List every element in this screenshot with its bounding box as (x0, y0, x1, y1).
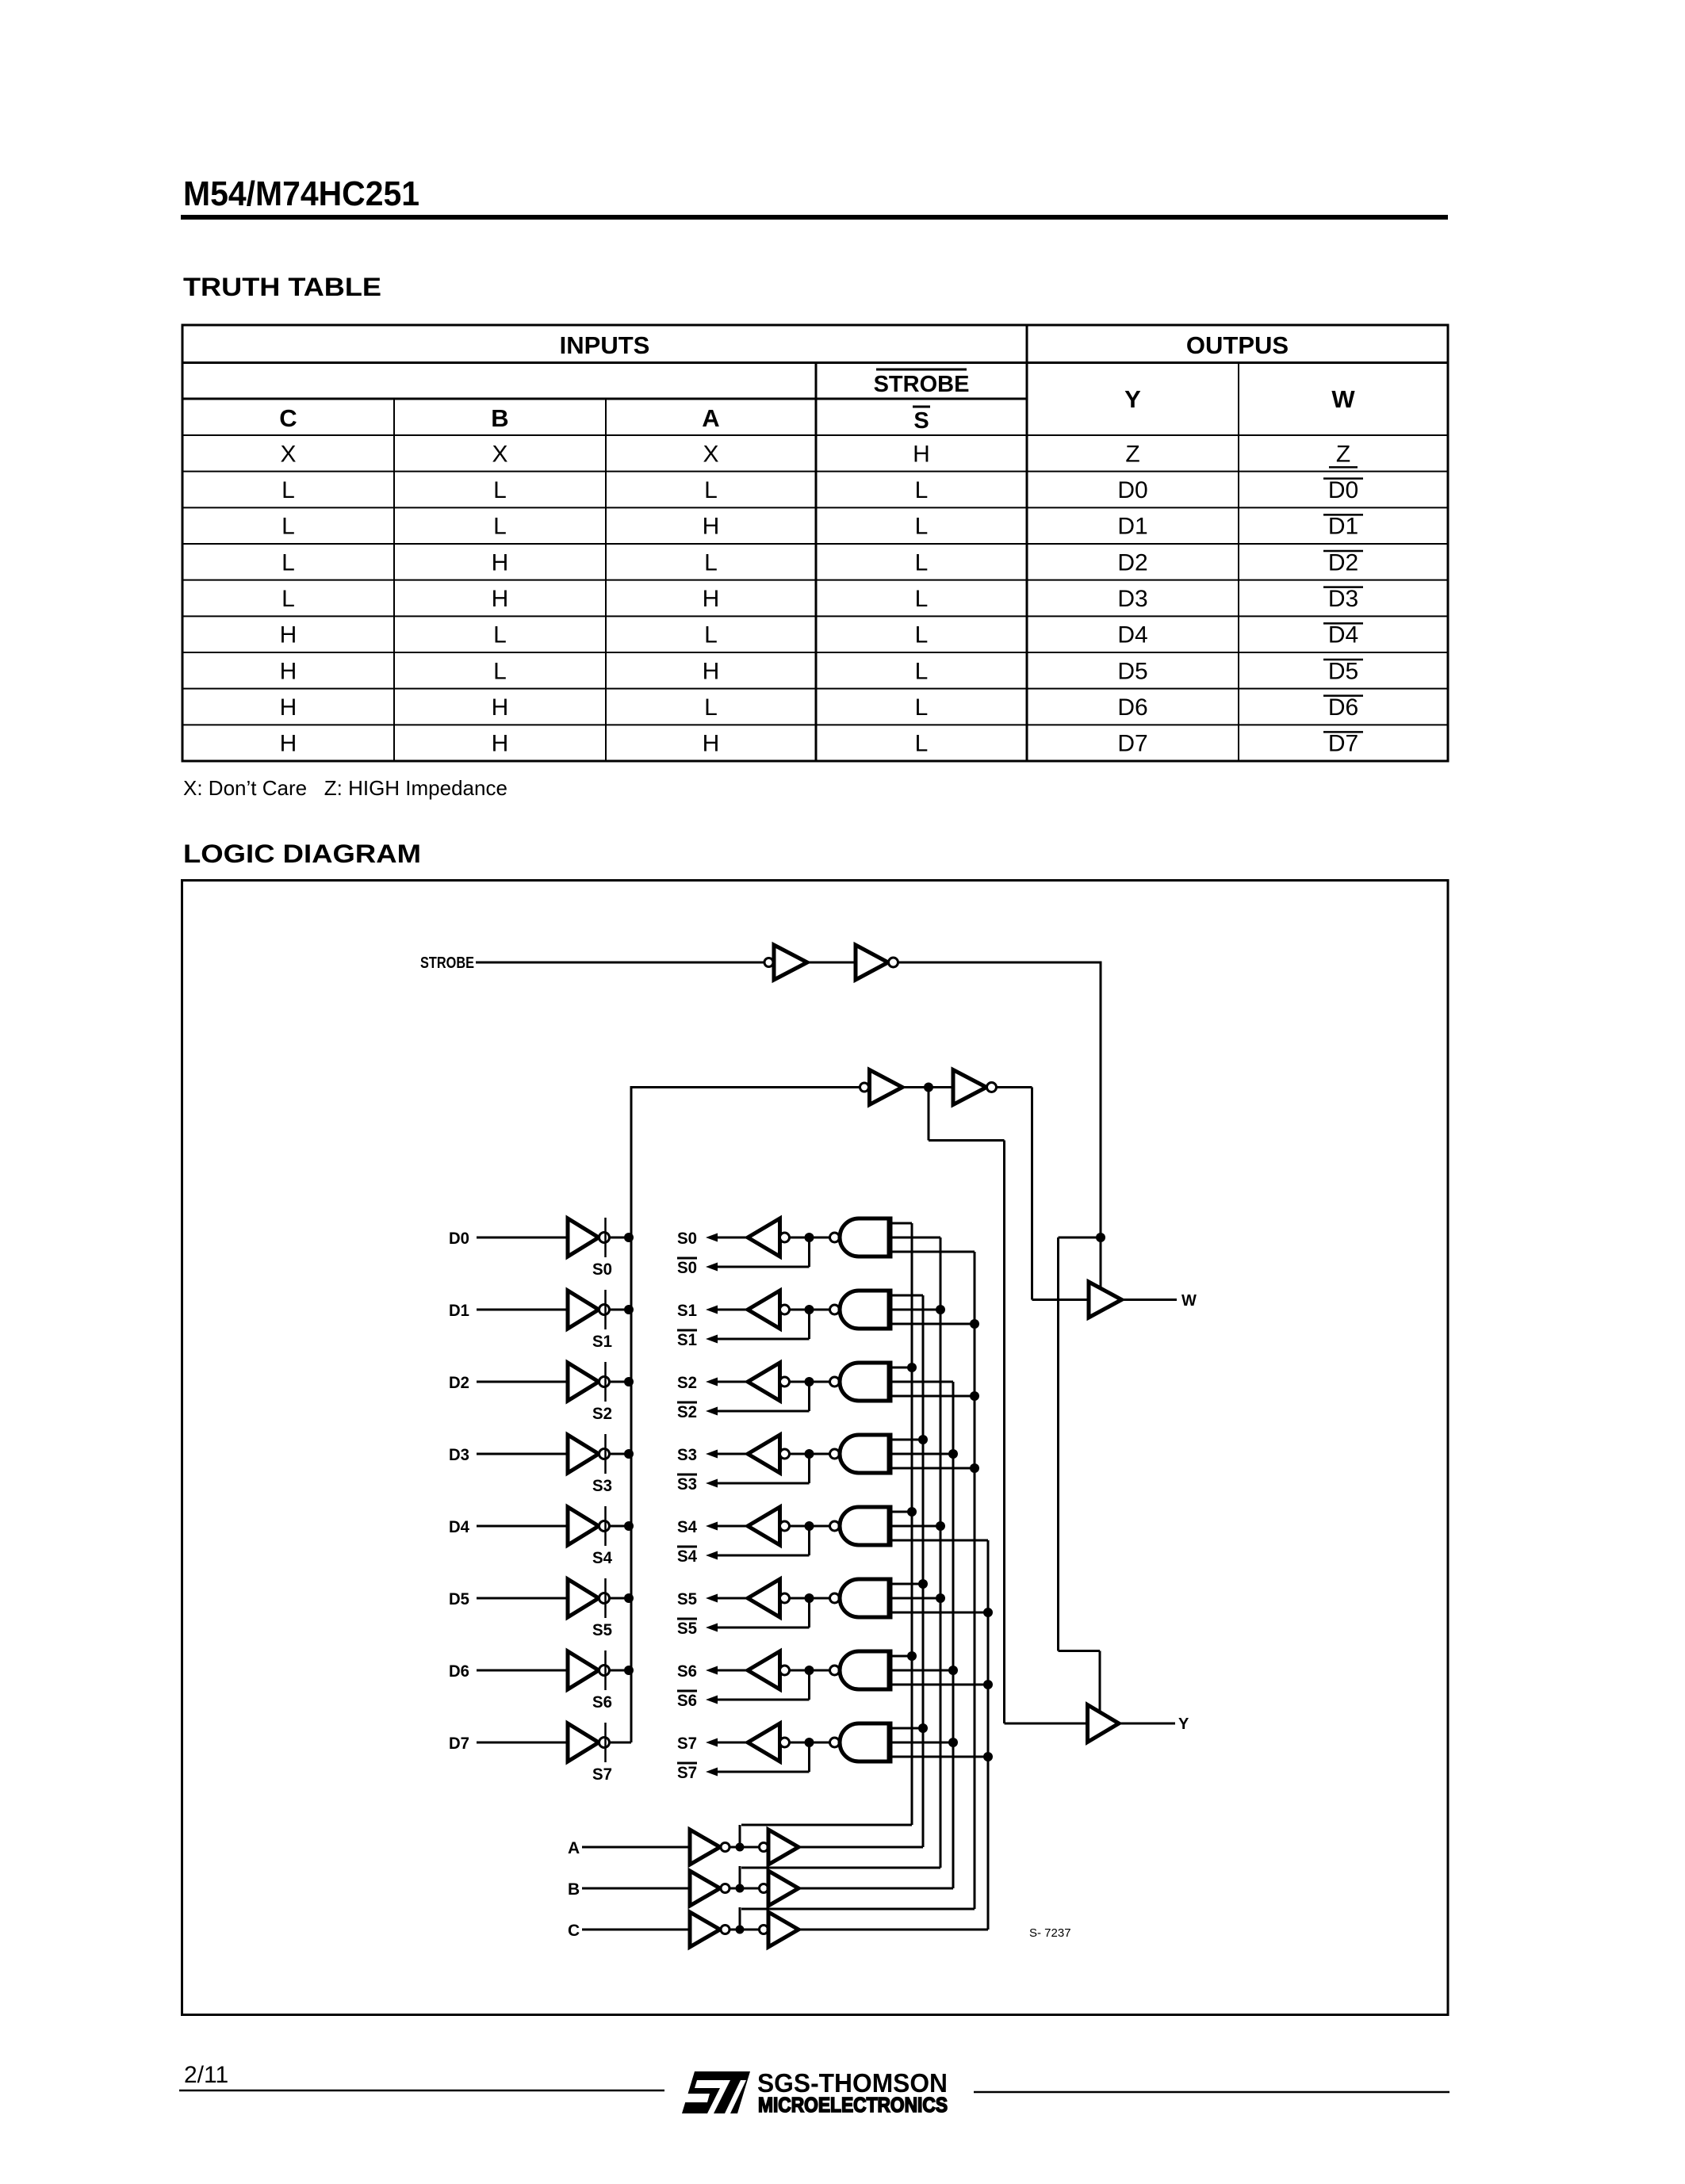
svg-text:X: Don’t Care Z: HIGH Impeda: X: Don’t Care Z: HIGH Impedance (183, 776, 507, 800)
truth table column line B/A (605, 399, 607, 761)
svg-text:D2: D2 (1117, 549, 1147, 576)
SGS-THOMSON logo mark (681, 2071, 750, 2113)
svg-text:D1: D1 (449, 1302, 469, 1320)
svg-text:L: L (915, 658, 929, 684)
node S0bar junction (805, 1233, 814, 1242)
wire NAND G3 output (790, 1453, 830, 1455)
select tick S3 (604, 1434, 607, 1474)
svg-text:H: H (703, 658, 720, 684)
svg-text:D6: D6 (1328, 694, 1358, 721)
inverter U6A data (568, 1651, 599, 1689)
svg-text:D5: D5 (1117, 658, 1147, 684)
inverter C2 input bubble (760, 1926, 768, 1934)
svg-text:L: L (493, 622, 507, 648)
wire G2 select input mid (892, 1381, 953, 1383)
wire line A-bar select vertical (911, 1223, 913, 1825)
nand gate G3 (840, 1435, 890, 1473)
wire S5bar vertical (808, 1598, 810, 1627)
wire S1 from inverter U1B (715, 1309, 748, 1311)
inverter B2 input bubble (760, 1884, 768, 1893)
node S6bar junction (805, 1666, 814, 1675)
inverter U3B input bubble (780, 1449, 790, 1459)
svg-text:S7: S7 (677, 1735, 697, 1753)
svg-text:Z: Z (1125, 441, 1139, 467)
node select junction (983, 1608, 993, 1617)
svg-text:H: H (492, 586, 509, 612)
inverter U5B input bubble (780, 1593, 790, 1603)
svg-text:S3: S3 (592, 1477, 612, 1495)
inverter U7A data (568, 1723, 599, 1761)
node select junction (907, 1507, 917, 1517)
wire G4 select input bottom (892, 1540, 988, 1542)
nand gate G6 (840, 1651, 890, 1689)
title rule (181, 215, 1448, 220)
inverter U2B input bubble (780, 1377, 790, 1387)
nand gate G7 output bubble (830, 1738, 840, 1747)
nand gate G5 output bubble (830, 1593, 840, 1603)
wire bus top horizontal to N2A (631, 1086, 860, 1088)
inverter U5A data (568, 1579, 599, 1617)
inverter A1 (690, 1830, 720, 1865)
arrow S1bar (706, 1335, 718, 1344)
svg-text:L: L (281, 549, 295, 576)
svg-text:S0: S0 (677, 1259, 697, 1277)
wire NAND G6 output (790, 1670, 830, 1672)
svg-text:B: B (568, 1880, 580, 1899)
wire Y input vertical (1003, 1141, 1005, 1724)
svg-text:S0: S0 (592, 1260, 612, 1279)
inverter N2A input bubble (860, 1083, 869, 1092)
inverter A1 output bubble (721, 1843, 730, 1852)
arrow S0 (706, 1234, 718, 1242)
truth table row line 3 (182, 543, 1448, 545)
node S7bar junction (805, 1738, 814, 1747)
inverter A2 (768, 1830, 798, 1865)
wire W output (1122, 1299, 1178, 1301)
node select junction (970, 1463, 979, 1473)
wire G6 select input top (892, 1655, 912, 1658)
svg-text:D7: D7 (1328, 731, 1358, 757)
wire D7 to inverter (477, 1742, 568, 1744)
wire line A select vertical (922, 1295, 925, 1847)
truth table subheader row line (182, 434, 1448, 436)
inverter N1B output bubble (889, 958, 898, 967)
truth table column line INPUTS/OUTPUS (1026, 325, 1028, 761)
svg-text:L: L (281, 514, 295, 540)
wire line B select vertical (952, 1382, 955, 1888)
inverter A2 input bubble (760, 1843, 768, 1852)
truth table row line 6 (182, 652, 1448, 653)
nand gate G4 output bubble (830, 1521, 840, 1531)
node select junction (970, 1319, 979, 1329)
wire Y tap vertical (928, 1088, 930, 1141)
svg-text:L: L (281, 586, 295, 612)
truth table row line 1 (182, 471, 1448, 472)
svg-text:D7: D7 (1117, 731, 1147, 757)
node select junction (948, 1666, 958, 1675)
node enable branch junction (1096, 1233, 1105, 1242)
wire G6 select input mid (892, 1670, 953, 1672)
wire B dot to buffer (730, 1888, 759, 1890)
inverter N2A (870, 1070, 903, 1105)
wire B true to vertical (798, 1888, 953, 1890)
wire A dot to buffer (730, 1846, 759, 1849)
svg-text:L: L (704, 694, 718, 721)
arrow S6 (706, 1666, 718, 1675)
wire S2bar horizontal (717, 1410, 810, 1413)
node select junction (918, 1723, 928, 1733)
nand gate G6 output bubble (830, 1666, 840, 1675)
inverter U1A output bubble (599, 1305, 610, 1315)
wire D4 to inverter (477, 1525, 568, 1528)
wire S6 from inverter U6B (715, 1670, 748, 1672)
svg-text:L: L (915, 586, 929, 612)
node bus junction D2 (624, 1377, 634, 1387)
svg-text:S- 7237: S- 7237 (1029, 1926, 1071, 1940)
wire enable branch to left (1059, 1237, 1101, 1239)
wire N1A to N1B (807, 962, 856, 964)
inverter U7A output bubble (599, 1738, 610, 1748)
svg-text:L: L (915, 694, 929, 721)
wire S1bar horizontal (717, 1338, 810, 1341)
inverter U1A data (568, 1291, 599, 1329)
wire enable to W buffer (1100, 1237, 1102, 1290)
svg-text:S5: S5 (677, 1620, 697, 1638)
truth table header row line (182, 361, 1448, 364)
inverter B1 (690, 1871, 720, 1906)
wire G0 select input bottom (892, 1251, 975, 1253)
svg-text:D7: D7 (449, 1735, 469, 1753)
wire W input horizontal (1032, 1299, 1090, 1301)
wire U7A output to bus (610, 1742, 632, 1744)
arrow S7 (706, 1738, 718, 1747)
select tick S0 (604, 1218, 607, 1257)
wire N1B output to right (898, 962, 1102, 964)
svg-text:S5: S5 (592, 1621, 612, 1639)
wire A-bar up (739, 1825, 741, 1847)
svg-text:D6: D6 (1117, 694, 1147, 721)
svg-text:S: S (913, 408, 929, 434)
inverter U0A output bubble (599, 1233, 610, 1243)
inverter U0B input bubble (780, 1233, 790, 1242)
wire Y tap horizontal (929, 1139, 1005, 1142)
nand gate G1 (840, 1291, 890, 1329)
wire W input vertical (1031, 1088, 1033, 1300)
svg-text:S4: S4 (677, 1518, 697, 1536)
select tick S4 (604, 1506, 607, 1546)
wire G1 select input bottom (892, 1323, 975, 1325)
svg-text:S5: S5 (677, 1590, 697, 1608)
wire NAND G0 output (790, 1237, 830, 1239)
inverter C2 (768, 1912, 798, 1947)
wire G4 select input mid (892, 1525, 940, 1528)
arrow S2bar (706, 1407, 718, 1416)
nand gate G7 (840, 1723, 890, 1761)
nand gate G5 (840, 1579, 890, 1617)
inverter C1 (690, 1912, 720, 1947)
wire Y input horizontal (1005, 1723, 1088, 1725)
svg-text:L: L (281, 477, 295, 503)
inverter N1A input bubble (764, 958, 773, 967)
truth table column line strobe (815, 363, 818, 762)
wire A input (582, 1846, 690, 1849)
inverter U5B (748, 1579, 780, 1617)
arrow S5bar (706, 1624, 718, 1632)
inverter U6A output bubble (599, 1666, 610, 1676)
inverter U0A data (568, 1218, 599, 1256)
wire G6 select input bottom (892, 1684, 988, 1686)
arrow S3 (706, 1450, 718, 1459)
svg-text:H: H (703, 514, 720, 540)
arrow S5 (706, 1594, 718, 1603)
wire G0 select input top (892, 1222, 912, 1225)
node A-bar junction (736, 1843, 745, 1852)
svg-text:B: B (491, 404, 508, 432)
truth table outer border (182, 325, 1448, 761)
node select junction (936, 1593, 945, 1603)
svg-text:H: H (492, 549, 509, 576)
svg-text:H: H (703, 586, 720, 612)
wire S6bar vertical (808, 1670, 810, 1700)
truth table row line 4 (182, 579, 1448, 581)
node select junction (948, 1738, 958, 1747)
select tick S2 (604, 1362, 607, 1402)
svg-text:STROBE: STROBE (874, 372, 970, 397)
svg-text:A: A (702, 404, 719, 432)
inverter N1B (856, 945, 888, 980)
truth table column line C/B (393, 399, 395, 761)
truth table row line 8 (182, 724, 1448, 725)
node S2bar junction (805, 1377, 814, 1387)
svg-text:L: L (493, 658, 507, 684)
wire U4A output to bus (610, 1525, 632, 1528)
svg-text:D2: D2 (1328, 549, 1358, 576)
svg-text:D0: D0 (1328, 477, 1358, 503)
select tick S1 (604, 1290, 607, 1329)
wire S0bar vertical (808, 1237, 810, 1267)
inverter B1 output bubble (721, 1884, 730, 1893)
svg-text:D6: D6 (449, 1662, 469, 1681)
wire C true to vertical (798, 1929, 988, 1931)
wire G3 select input top (892, 1439, 923, 1441)
wire C-bar up (739, 1907, 741, 1930)
svg-text:TRUTH TABLE: TRUTH TABLE (183, 273, 381, 301)
arrow S3bar (706, 1479, 718, 1488)
node bus junction D0 (624, 1233, 634, 1242)
wire N2B output (997, 1086, 1032, 1088)
svg-text:L: L (915, 477, 929, 503)
node select junction (970, 1391, 979, 1401)
svg-text:S6: S6 (592, 1693, 612, 1712)
logic diagram frame (182, 881, 1449, 2015)
wire NAND G2 output (790, 1381, 830, 1383)
inverter U4B (748, 1507, 780, 1545)
inverter U6B (748, 1651, 780, 1689)
wire enable vertical down (1100, 962, 1102, 1238)
svg-text:Y: Y (1178, 1715, 1189, 1733)
wire D1 to inverter (477, 1309, 568, 1311)
node select junction (936, 1521, 945, 1531)
wire S7bar vertical (808, 1742, 810, 1772)
svg-text:D2: D2 (449, 1374, 469, 1392)
select tick S5 (604, 1578, 607, 1618)
svg-text:S6: S6 (677, 1662, 697, 1681)
wire NAND G1 output (790, 1309, 830, 1311)
svg-text:S3: S3 (677, 1446, 697, 1464)
wire G5 select input bottom (892, 1612, 988, 1614)
wire U1A output to bus (610, 1309, 632, 1311)
svg-text:S3: S3 (677, 1475, 697, 1494)
inverter U7B (748, 1723, 780, 1761)
svg-text:S7: S7 (677, 1764, 697, 1782)
svg-text:L: L (915, 514, 929, 540)
arrow S4bar (706, 1551, 718, 1560)
wire mux output bus vertical (630, 1086, 633, 1742)
wire S6bar horizontal (717, 1699, 810, 1701)
wire S1bar vertical (808, 1310, 810, 1339)
svg-text:H: H (280, 731, 297, 757)
inverter U2A output bubble (599, 1377, 610, 1387)
inverter N2B (953, 1070, 986, 1105)
svg-text:D0: D0 (1117, 477, 1147, 503)
arrow S4 (706, 1522, 718, 1531)
inverter U4A data (568, 1507, 599, 1545)
wire Y output (1119, 1723, 1175, 1725)
inverter U3A data (568, 1435, 599, 1473)
svg-text:W: W (1181, 1292, 1197, 1310)
svg-text:H: H (280, 658, 297, 684)
svg-text:A: A (568, 1839, 580, 1857)
svg-text:MICROELECTRONICS: MICROELECTRONICS (758, 2093, 948, 2117)
wire S4 from inverter U4B (715, 1525, 748, 1528)
wire U3A output to bus (610, 1453, 632, 1455)
wire S4bar vertical (808, 1526, 810, 1555)
svg-text:H: H (913, 441, 930, 467)
inverter U5A output bubble (599, 1593, 610, 1604)
arrow S0bar (706, 1263, 718, 1272)
svg-text:L: L (704, 549, 718, 576)
svg-text:LOGIC DIAGRAM: LOGIC DIAGRAM (183, 840, 421, 868)
truth table column line Y/W (1238, 363, 1239, 762)
wire D6 to inverter (477, 1670, 568, 1672)
wire enable branch vertical (1057, 1237, 1059, 1651)
svg-text:S6: S6 (677, 1692, 697, 1710)
svg-text:W: W (1331, 385, 1355, 413)
wire B-bar up (739, 1866, 741, 1888)
node select junction (907, 1363, 917, 1372)
wire A-bar link (741, 1824, 912, 1826)
inverter N1A (774, 945, 807, 980)
wire B-bar link (741, 1867, 940, 1869)
svg-text:S1: S1 (592, 1333, 612, 1351)
node select junction (918, 1435, 928, 1444)
svg-text:S1: S1 (677, 1302, 697, 1320)
wire D0 to inverter (477, 1237, 568, 1239)
svg-text:S4: S4 (592, 1549, 612, 1567)
wire U2A output to bus (610, 1381, 632, 1383)
wire S2bar vertical (808, 1382, 810, 1411)
svg-text:S2: S2 (677, 1374, 697, 1392)
nand gate G4 (840, 1507, 890, 1545)
wire line C select vertical (987, 1540, 990, 1930)
wire enable to Y buffer (1099, 1651, 1101, 1714)
svg-text:S1: S1 (677, 1331, 697, 1349)
wire G2 select input bottom (892, 1395, 975, 1398)
svg-text:STROBE: STROBE (420, 954, 474, 972)
wire G7 select input mid (892, 1742, 953, 1744)
inverter U3B (748, 1435, 780, 1473)
wire S5bar horizontal (717, 1627, 810, 1629)
svg-text:C: C (279, 404, 297, 432)
svg-text:L: L (704, 622, 718, 648)
wire C dot to buffer (730, 1929, 759, 1931)
footer rule right (974, 2091, 1449, 2094)
svg-text:L: L (915, 549, 929, 576)
wire S0bar horizontal (717, 1266, 810, 1268)
node W/Y split junction (924, 1083, 933, 1092)
arrow S1 (706, 1306, 718, 1314)
svg-text:D0: D0 (449, 1230, 469, 1248)
svg-text:L: L (915, 731, 929, 757)
svg-text:H: H (492, 731, 509, 757)
wire S0 from inverter U0B (715, 1237, 748, 1239)
wire G4 select input top (892, 1511, 912, 1513)
svg-text:D5: D5 (1328, 658, 1358, 684)
wire D5 to inverter (477, 1597, 568, 1600)
wire G5 select input mid (892, 1597, 940, 1600)
inverter U7B input bubble (780, 1738, 790, 1747)
wire C-bar link (741, 1908, 975, 1911)
node bus junction D5 (624, 1593, 634, 1603)
wire G0 select input mid (892, 1237, 940, 1239)
select tick S7 (604, 1723, 607, 1762)
svg-text:S2: S2 (677, 1403, 697, 1421)
wire G3 select input mid (892, 1453, 953, 1455)
wire line B-bar select vertical (940, 1237, 942, 1868)
inverter U3A output bubble (599, 1449, 610, 1459)
inverter U1B input bubble (780, 1305, 790, 1314)
svg-text:OUTPUS: OUTPUS (1186, 331, 1289, 359)
footer rule left (179, 2090, 664, 2092)
svg-text:2/11: 2/11 (184, 2062, 228, 2088)
svg-text:D4: D4 (449, 1518, 469, 1536)
inverter U4A output bubble (599, 1521, 610, 1532)
inverter U4B input bubble (780, 1521, 790, 1531)
nand gate G0 (840, 1218, 890, 1256)
wire G2 select input top (892, 1367, 912, 1369)
svg-text:Z: Z (1336, 441, 1350, 467)
inverter U0B (748, 1218, 780, 1256)
wire A true to vertical (798, 1846, 923, 1849)
svg-text:S2: S2 (592, 1405, 612, 1423)
wire S2 from inverter U2B (715, 1381, 748, 1383)
wire G7 select input top (892, 1727, 923, 1730)
node select junction (918, 1579, 928, 1589)
svg-text:L: L (915, 622, 929, 648)
node bus junction D3 (624, 1449, 634, 1459)
wire S3bar horizontal (717, 1482, 810, 1485)
wire S5 from inverter U5B (715, 1597, 748, 1600)
node S5bar junction (805, 1593, 814, 1603)
wire S4bar horizontal (717, 1555, 810, 1557)
svg-text:D3: D3 (449, 1446, 469, 1464)
svg-text:H: H (703, 731, 720, 757)
svg-text:S0: S0 (677, 1230, 697, 1248)
arrow S7bar (706, 1768, 718, 1777)
svg-text:X: X (703, 441, 718, 467)
truth table row line 7 (182, 688, 1448, 690)
wire B input (582, 1888, 690, 1890)
